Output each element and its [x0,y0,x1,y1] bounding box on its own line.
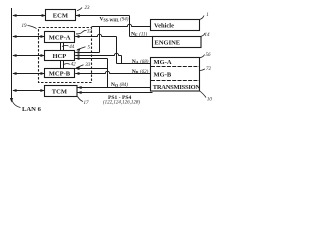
connector MCPA-HCP [60,43,62,51]
svg-text:23: 23 [85,6,91,11]
ref 23 [77,8,82,11]
svg-text:33: 33 [85,63,91,68]
svg-text:MG-B: MG-B [154,71,172,78]
wire bus-ECM [13,15,46,17]
ref 42 [63,64,70,65]
wire V2 vertical [116,37,118,64]
svg-text:1: 1 [206,13,209,18]
ref 56 [200,55,205,58]
wire bus-MCPA [13,36,45,38]
svg-text:MCP-B: MCP-B [49,71,71,78]
wire H2 to Vehicle with hop [92,24,151,26]
svg-text:ECM: ECM [53,13,68,20]
svg-text:VSS-WHL(94): VSS-WHL(94) [100,17,129,23]
svg-text:LAN 6: LAN 6 [22,106,42,113]
ref 1 [200,16,205,20]
HCP box [45,51,75,61]
svg-text:56: 56 [206,53,212,58]
ref 17 [78,97,84,102]
svg-text:NA(68): NA(68) [132,59,149,65]
svg-text:17: 17 [84,101,90,106]
ref 44 [62,45,69,46]
svg-text:32: 32 [87,30,93,35]
wire V1 vertical [129,16,131,37]
svg-text:MCP-A: MCP-A [49,35,71,42]
wire bus-HCP [13,55,45,57]
wire bus-TCM [13,90,44,92]
wire Vsswhl into ECM [76,15,130,17]
ref 5 [77,47,85,50]
MCP-B box [45,69,75,78]
ref 72 [200,69,205,71]
dashed box 19 TPIM [39,28,92,83]
Vehicle box [151,20,200,31]
ECM box [46,10,76,21]
wire V4 vertical [107,59,109,88]
transmission outer box [151,58,200,92]
wire H3c HCP bottom [75,58,107,60]
wire MCP-A to V2 with hop [75,34,116,36]
ref 10 [200,91,206,98]
ref 32 [76,30,87,34]
ref 14 [201,33,205,36]
svg-text:44: 44 [69,45,75,50]
TCM box [45,86,78,97]
wire N_E to ENGINE [130,36,153,38]
svg-text:Vehicle: Vehicle [154,23,174,30]
svg-text:ENGINE: ENGINE [155,39,181,46]
svg-text:14: 14 [205,33,211,38]
svg-text:NB(62): NB(62) [132,69,149,75]
ENGINE box [153,37,202,48]
svg-text:72: 72 [206,67,212,72]
svg-text:TRANSMISSION: TRANSMISSION [153,84,201,91]
LAN bus [11,8,13,100]
divider MG-A/MG-B [151,66,200,68]
wire H3a HCP top [75,52,99,54]
wire N_B to MG-B with hop [75,71,150,73]
wire V3 vertical [121,56,123,64]
connector HCP-MCPB [60,61,62,69]
LAN bus bottom arrowhead [10,98,13,103]
svg-text:TCM: TCM [52,89,67,96]
wire H3b HCP mid with hop [75,53,121,55]
MCP-A box [45,32,75,43]
wire bus-MCPB [13,73,45,75]
ref 33 [76,65,83,68]
wire MCP-B1 to V4 [75,68,107,70]
wire No to TCM [78,87,151,89]
svg-text:HCP: HCP [53,53,67,60]
ref 19 [28,26,37,29]
svg-text:(122,124,126,128): (122,124,126,128) [103,101,140,106]
svg-text:10: 10 [207,98,213,103]
svg-text:19: 19 [22,24,28,29]
svg-text:NO(84): NO(84) [111,82,128,88]
wire PS to TCM [78,92,153,94]
svg-text:MG-A: MG-A [154,59,172,66]
wire N_A to MG-A [117,63,151,65]
divider MG-B/TRANSMISSION [151,80,200,82]
wire riser R1 [99,27,101,53]
node LAN 6 label [12,98,21,108]
svg-text:42: 42 [71,63,77,68]
